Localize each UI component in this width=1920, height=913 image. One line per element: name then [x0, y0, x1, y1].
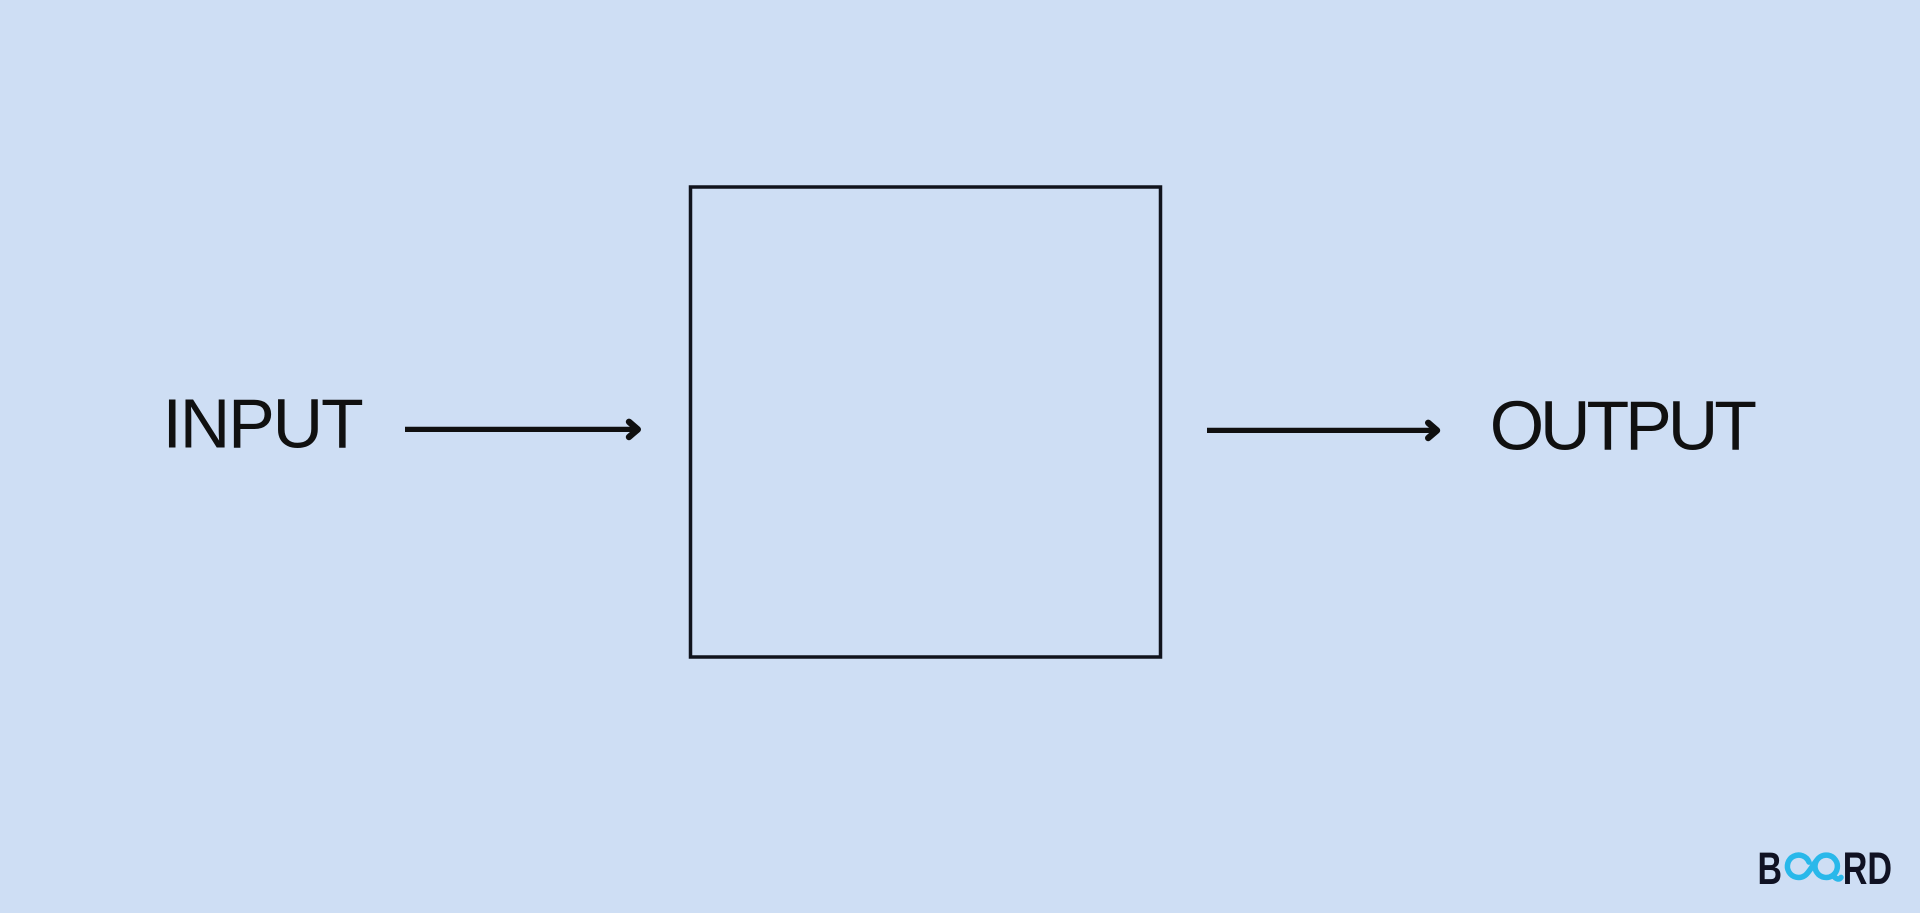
svg-text:RD: RD: [1843, 843, 1892, 894]
svg-text:B: B: [1758, 843, 1783, 894]
svg-text:OUTPUT: OUTPUT: [1490, 387, 1757, 465]
svg-text:INPUT: INPUT: [163, 385, 363, 463]
